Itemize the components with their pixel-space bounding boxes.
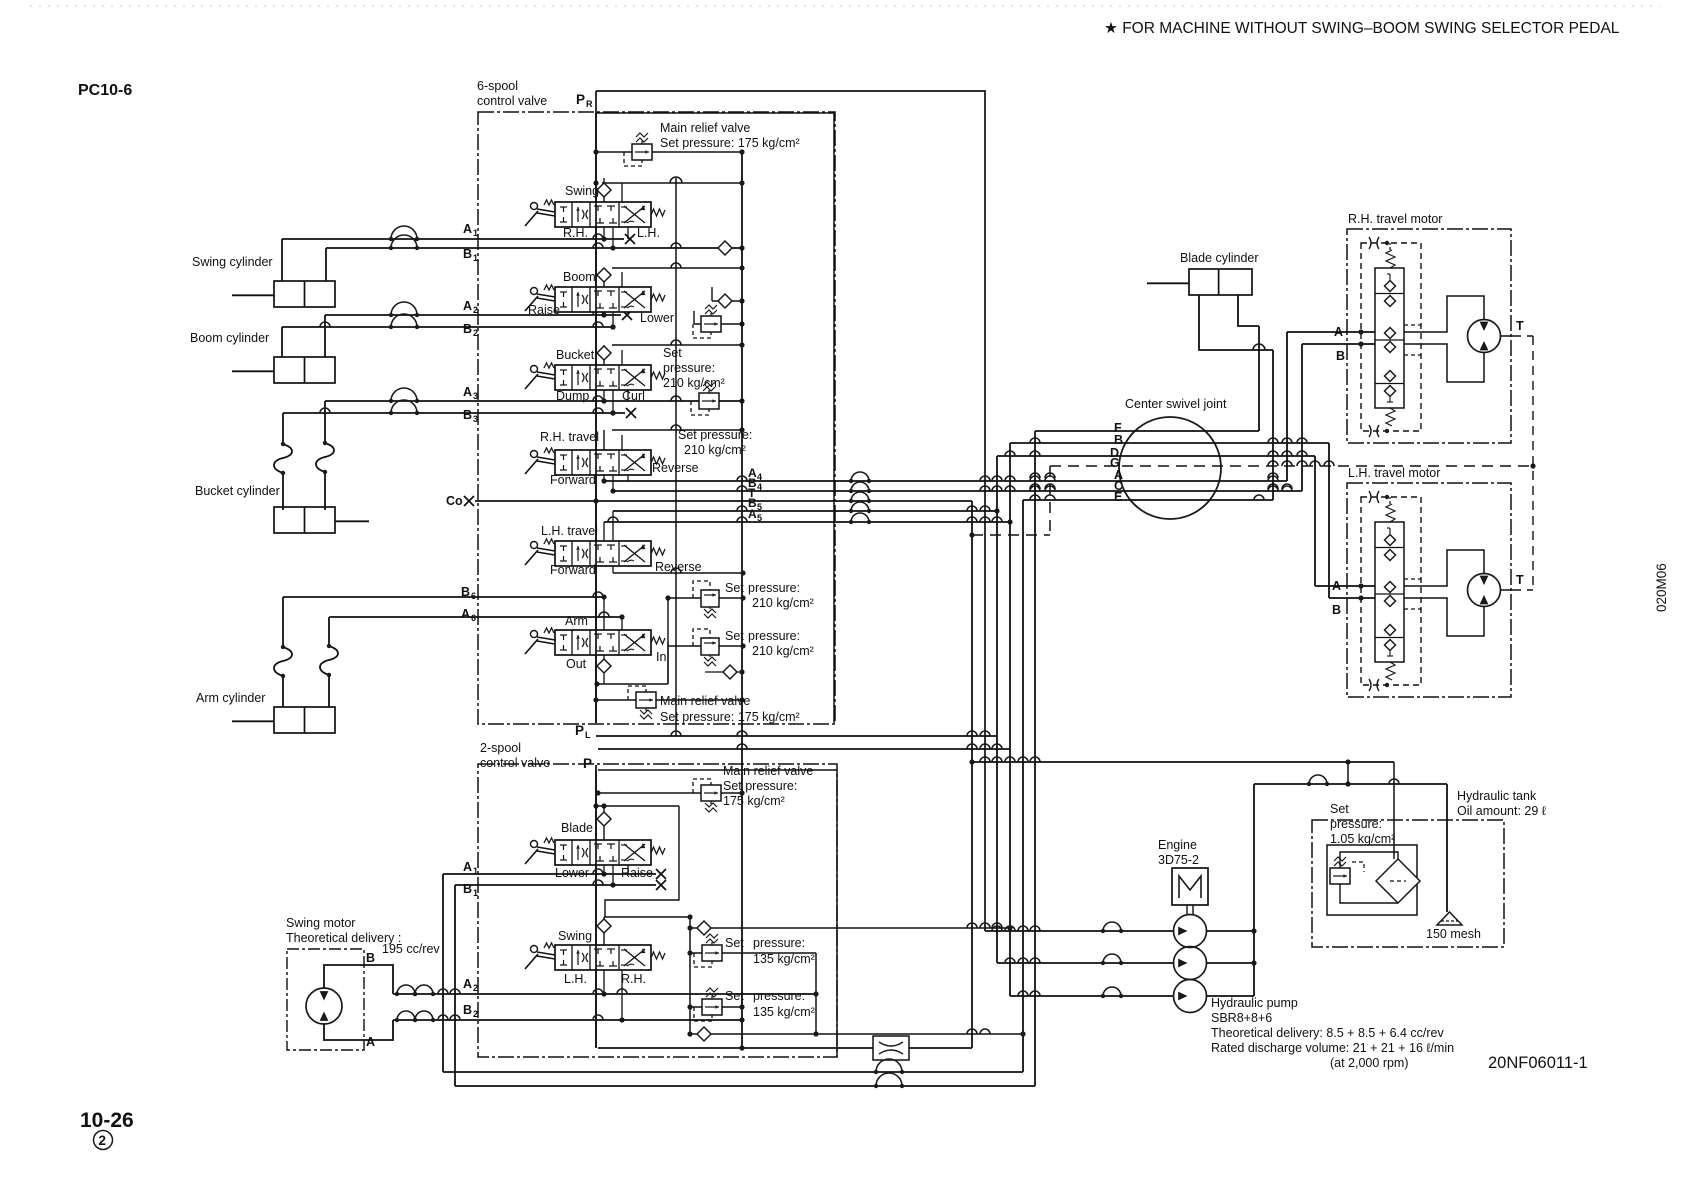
svg-text:Center swivel joint: Center swivel joint: [1125, 397, 1227, 411]
svg-text:B: B: [366, 951, 375, 965]
svg-text:Raise: Raise: [528, 303, 560, 317]
svg-text:195 cc/rev: 195 cc/rev: [382, 942, 440, 956]
svg-text:R: R: [586, 99, 593, 109]
svg-text:B: B: [463, 1003, 472, 1017]
svg-text:pressure:: pressure:: [753, 989, 805, 1003]
svg-text:210 kg/cm²: 210 kg/cm²: [752, 596, 814, 610]
svg-text:Boom cylinder: Boom cylinder: [190, 331, 269, 345]
svg-text:Main relief valve: Main relief valve: [660, 121, 750, 135]
svg-text:R.H.: R.H.: [621, 972, 646, 986]
svg-text:6-spool: 6-spool: [477, 79, 518, 93]
svg-text:B: B: [463, 247, 472, 261]
svg-text:control valve: control valve: [477, 94, 547, 108]
svg-text:R.H. travel motor: R.H. travel motor: [1348, 212, 1442, 226]
svg-text:Bucket: Bucket: [556, 348, 595, 362]
svg-text:Set pressure:: Set pressure:: [678, 428, 752, 442]
svg-text:Forward: Forward: [550, 473, 596, 487]
svg-text:Lower: Lower: [640, 311, 674, 325]
svg-text:Arm cylinder: Arm cylinder: [196, 691, 265, 705]
svg-text:Main relief valve: Main relief valve: [660, 694, 750, 708]
svg-text:Set pressure:: Set pressure:: [723, 779, 797, 793]
svg-text:L.H. travel: L.H. travel: [541, 524, 598, 538]
svg-text:P: P: [576, 92, 585, 107]
svg-text:L.H.: L.H.: [564, 972, 587, 986]
svg-text:Swing: Swing: [558, 929, 592, 943]
svg-text:150 mesh: 150 mesh: [1426, 927, 1481, 941]
svg-text:Swing: Swing: [565, 184, 599, 198]
svg-text:Hydraulic pump: Hydraulic pump: [1211, 996, 1298, 1010]
svg-text:10-26: 10-26: [80, 1109, 134, 1132]
svg-text:A: A: [463, 860, 472, 874]
svg-text:B: B: [1332, 603, 1341, 617]
svg-text:A: A: [366, 1035, 375, 1049]
svg-text:Theoretical delivery: 8.5 + 8: Theoretical delivery: 8.5 + 8.5 + 6.4 cc…: [1211, 1026, 1445, 1040]
svg-text:B: B: [463, 322, 472, 336]
svg-text:SBR8+8+6: SBR8+8+6: [1211, 1011, 1272, 1025]
svg-text:control valve: control valve: [480, 756, 550, 770]
svg-text:Oil amount: 29 ℓ: Oil amount: 29 ℓ: [1457, 804, 1546, 818]
svg-text:Set pressure: 175 kg/cm²: Set pressure: 175 kg/cm²: [660, 136, 800, 150]
svg-text:A: A: [461, 607, 470, 621]
svg-text:pressure:: pressure:: [1330, 817, 1382, 831]
svg-text:Boom: Boom: [563, 270, 596, 284]
svg-text:L: L: [585, 730, 591, 740]
svg-text:P: P: [575, 723, 584, 738]
svg-text:Forward: Forward: [550, 563, 596, 577]
svg-text:★ FOR MACHINE WITHOUT SWING–B: ★ FOR MACHINE WITHOUT SWING–BOOM SWING S…: [1104, 20, 1620, 37]
svg-text:210 kg/cm²: 210 kg/cm²: [684, 443, 746, 457]
svg-text:Set: Set: [725, 581, 744, 595]
svg-text:Blade cylinder: Blade cylinder: [1180, 251, 1259, 265]
svg-text:A: A: [463, 299, 472, 313]
svg-text:Set: Set: [725, 629, 744, 643]
svg-text:210 kg/cm²: 210 kg/cm²: [663, 376, 725, 390]
svg-text:2: 2: [473, 1009, 478, 1019]
svg-text:PC10-6: PC10-6: [78, 82, 132, 99]
svg-text:Arm: Arm: [565, 614, 588, 628]
svg-text:Blade: Blade: [561, 821, 593, 835]
svg-text:Main relief valve: Main relief valve: [723, 764, 813, 778]
svg-text:3: 3: [473, 391, 478, 401]
svg-text:L.H.: L.H.: [637, 226, 660, 240]
svg-text:A: A: [463, 222, 472, 236]
svg-text:175 kg/cm²: 175 kg/cm²: [723, 794, 785, 808]
svg-text:Raise: Raise: [621, 866, 653, 880]
svg-text:P: P: [583, 756, 592, 771]
svg-text:Rated discharge volume: 21 +: Rated discharge volume: 21 + 21 + 16 ℓ/m…: [1211, 1041, 1454, 1055]
svg-text:A: A: [463, 385, 472, 399]
svg-text:Reverse: Reverse: [655, 560, 702, 574]
svg-text:B: B: [1114, 433, 1123, 447]
svg-text:Set: Set: [725, 936, 744, 950]
svg-text:Engine: Engine: [1158, 838, 1197, 852]
svg-text:L.H. travel motor: L.H. travel motor: [1348, 466, 1440, 480]
svg-text:20NF06011-1: 20NF06011-1: [1488, 1054, 1588, 1072]
svg-text:Reverse: Reverse: [652, 461, 699, 475]
svg-text:pressure:: pressure:: [748, 629, 800, 643]
svg-text:2: 2: [473, 328, 478, 338]
svg-text:B: B: [463, 408, 472, 422]
svg-text:Lower: Lower: [555, 866, 589, 880]
svg-text:3D75-2: 3D75-2: [1158, 853, 1199, 867]
svg-text:2-spool: 2-spool: [480, 741, 521, 755]
svg-text:020M06: 020M06: [1654, 563, 1669, 612]
svg-text:Hydraulic tank: Hydraulic tank: [1457, 789, 1537, 803]
svg-text:Bucket cylinder: Bucket cylinder: [195, 484, 280, 498]
svg-text:pressure:: pressure:: [748, 581, 800, 595]
svg-text:2: 2: [473, 305, 478, 315]
svg-text:T: T: [1516, 573, 1524, 587]
svg-text:Curl: Curl: [622, 389, 645, 403]
svg-text:Dump: Dump: [556, 389, 589, 403]
svg-text:135 kg/cm²: 135 kg/cm²: [753, 1005, 815, 1019]
svg-text:T: T: [1516, 319, 1524, 333]
svg-text:A: A: [463, 977, 472, 991]
svg-text:Out: Out: [566, 657, 587, 671]
svg-text:Swing motor: Swing motor: [286, 916, 355, 930]
svg-text:Co: Co: [446, 494, 463, 508]
svg-text:6: 6: [471, 591, 476, 601]
svg-text:B: B: [1336, 349, 1345, 363]
svg-text:Swing cylinder: Swing cylinder: [192, 255, 273, 269]
svg-text:210 kg/cm²: 210 kg/cm²: [752, 644, 814, 658]
svg-text:1: 1: [473, 228, 478, 238]
svg-text:2: 2: [473, 983, 478, 993]
svg-text:R.H. travel: R.H. travel: [540, 430, 599, 444]
svg-text:Set: Set: [663, 346, 682, 360]
svg-text:pressure:: pressure:: [663, 361, 715, 375]
svg-text:(at 2,000 rpm): (at 2,000 rpm): [1330, 1056, 1409, 1070]
svg-text:1: 1: [473, 253, 478, 263]
svg-text:A: A: [748, 507, 757, 521]
svg-text:Set pressure: 175 kg/cm²: Set pressure: 175 kg/cm²: [660, 710, 800, 724]
svg-text:R.H.: R.H.: [563, 226, 588, 240]
svg-text:Set: Set: [725, 989, 744, 1003]
svg-text:135 kg/cm²: 135 kg/cm²: [753, 952, 815, 966]
svg-text:6: 6: [471, 613, 476, 623]
svg-text:3: 3: [473, 414, 478, 424]
svg-text:Set: Set: [1330, 802, 1349, 816]
svg-text:E: E: [1114, 490, 1122, 504]
svg-text:2: 2: [99, 1133, 107, 1148]
svg-text:1.05 kg/cm²: 1.05 kg/cm²: [1330, 832, 1395, 846]
svg-text:1: 1: [473, 888, 478, 898]
svg-text:pressure:: pressure:: [753, 936, 805, 950]
svg-text:In: In: [656, 650, 666, 664]
